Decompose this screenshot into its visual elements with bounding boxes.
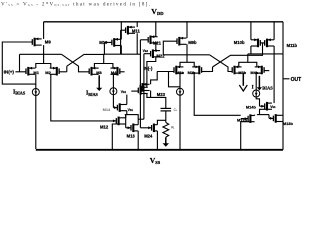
wire M4b drain lead — [256, 72, 262, 74]
wire M11 gate lead — [121, 29, 126, 31]
M3 label — [96, 70, 102, 75]
wire Vb1 node to M15 gate — [131, 90, 138, 92]
transistor M2 — [50, 67, 59, 76]
OUT label — [291, 77, 302, 83]
current source I3 — [177, 88, 184, 95]
wire M12 source down — [112, 124, 118, 149]
M4 label — [111, 70, 117, 75]
wire M21 drain to M22 — [155, 43, 157, 51]
transistor M13b — [269, 114, 282, 123]
svg-text:M13b: M13b — [283, 121, 294, 126]
wire M12b source down — [241, 122, 251, 149]
transistor M3b — [232, 66, 241, 75]
wire M9b source to VDD — [186, 22, 188, 38]
wire M10 drain down — [120, 46, 122, 55]
wire node A horizontal — [20, 53, 62, 55]
wire M2 gate lead — [59, 71, 67, 73]
transistor M4b — [255, 66, 264, 75]
transistor M9b — [177, 37, 186, 46]
M1 label — [33, 70, 39, 75]
wire to OUT vertical — [274, 53, 283, 55]
wire M13b gate stub — [268, 115, 270, 119]
wire node A' horizontal — [163, 54, 209, 56]
M9b label — [188, 40, 197, 45]
Vb2 label — [143, 49, 149, 53]
transistor M10b — [251, 38, 260, 47]
transistor M3 — [89, 67, 98, 76]
VDD label — [151, 7, 164, 16]
ground arrow below M3b — [239, 73, 247, 91]
wire M12b drain up — [254, 114, 256, 117]
wire M1 drain — [35, 74, 37, 88]
wire I3 to VSS — [179, 95, 181, 149]
M10 label — [99, 40, 108, 45]
svg-text:BIAS: BIAS — [262, 86, 273, 91]
svg-text:I: I — [252, 85, 254, 91]
I_BIAS label 2 — [86, 91, 99, 97]
Vb1 label 2 — [128, 108, 134, 112]
diff pair bar 3 — [180, 62, 194, 67]
svg-text:IN(-): IN(-) — [143, 66, 153, 71]
center vertical v1 — [139, 40, 141, 128]
CL label — [174, 108, 178, 112]
transistor M23 — [140, 83, 149, 92]
wire pair4 tap — [247, 54, 249, 62]
VDD rail — [44, 21, 283, 23]
wire M10drain to pair2 and M21 — [104, 53, 141, 55]
I_BIAS label 4 BIAS — [262, 86, 273, 91]
wire M11b source to VDD — [273, 22, 275, 40]
svg-text:IBIAS: IBIAS — [13, 89, 26, 95]
svg-text:IN(+): IN(+) — [4, 70, 15, 75]
M2b label — [188, 70, 196, 75]
drain bus right — [257, 114, 269, 116]
svg-text:M13: M13 — [127, 133, 136, 138]
wire M13 source down — [137, 131, 139, 149]
svg-text:M1: M1 — [33, 70, 39, 75]
wire M4b gate stub — [264, 70, 269, 72]
IN(-) label — [143, 66, 153, 71]
figure caption text fragment — [1, 1, 151, 7]
wire M12b gate vertical — [240, 115, 242, 118]
wire M13 gate from M12 drain — [125, 115, 127, 128]
wire M14 drain up to Vb1 node — [126, 95, 128, 105]
wire M11 source to VDD — [136, 22, 138, 27]
svg-text:M4b: M4b — [250, 70, 258, 75]
transistor M13 — [126, 124, 139, 133]
wire M9 drain to pair1 tap — [43, 45, 45, 63]
svg-text:M14: M14 — [103, 107, 111, 112]
wire M14 source down — [126, 111, 128, 115]
M9 label — [45, 40, 52, 45]
wire diagonal B drop to M2 gate — [66, 66, 68, 72]
Vb1 label 3 — [270, 105, 276, 109]
wire I1 to VSS — [35, 95, 37, 149]
wire IN- branch to c3 — [169, 72, 181, 87]
current source I2 — [110, 88, 117, 95]
M3b label — [238, 70, 246, 75]
M13 label — [127, 133, 136, 138]
svg-text:M9: M9 — [45, 40, 52, 45]
diff pair bar 1 — [36, 64, 51, 69]
transistor M10 — [112, 38, 121, 47]
transistor M4 — [110, 67, 119, 76]
arrow to VSS — [163, 137, 169, 147]
wire M11b drain down — [273, 46, 275, 103]
svg-text:M10b: M10b — [234, 40, 245, 45]
I_BIAS label 1 — [13, 89, 26, 95]
M21 label — [153, 41, 162, 46]
wire M12 drain up — [125, 115, 127, 118]
current source I1 — [32, 89, 39, 96]
M2 label — [45, 70, 51, 75]
wire M9b gate lead — [163, 41, 177, 55]
M4b label — [250, 70, 258, 75]
wire M1b drain — [179, 73, 181, 88]
OUT vertical — [282, 22, 284, 150]
wire cross-couple diagonal C — [210, 55, 233, 72]
transistor M11 — [126, 26, 135, 35]
svg-text:M11: M11 — [132, 29, 141, 34]
wire M11 drain down — [136, 33, 138, 54]
wire I4 to M14b gate — [256, 97, 259, 106]
wire M9 gate feedback — [2, 42, 36, 84]
svg-text:OUT: OUT — [291, 77, 302, 83]
wire M23 gate stub — [139, 86, 141, 88]
wire M23 drain staircase — [151, 91, 166, 109]
svg-text:M3: M3 — [96, 70, 102, 75]
I_BIAS arrow 2 — [96, 75, 102, 91]
transistor M9 — [32, 38, 41, 47]
wire M10b drain down — [250, 46, 252, 54]
wire M2b drain long — [194, 73, 241, 115]
M10b label — [234, 40, 245, 45]
svg-text:M9b: M9b — [188, 40, 197, 45]
M11b label — [287, 43, 298, 48]
wire I2 to M14 gate — [112, 95, 114, 108]
wire M2b gate lead — [202, 71, 211, 73]
wire M11 gate vertical — [120, 30, 122, 54]
transistor M22 — [151, 49, 160, 58]
IN(+) label — [4, 70, 15, 75]
wire M10b-M11b gate bridge — [260, 42, 264, 44]
diff pair bar 2 — [94, 64, 113, 69]
wire v2 to M13 drain — [138, 118, 144, 120]
wire diagonal D drop to M2b gate — [210, 67, 212, 72]
I_BIAS label 4 I — [252, 85, 254, 91]
wire M24 source down — [156, 131, 158, 149]
wire M10 source to VDD — [120, 22, 122, 40]
svg-text:Vb1: Vb1 — [270, 105, 276, 109]
svg-text:M21: M21 — [153, 41, 162, 46]
svg-text:M12: M12 — [100, 125, 109, 130]
wire pair2 tap — [103, 54, 105, 63]
transistor M2b — [192, 66, 201, 75]
wire M21 gate to v1 — [140, 39, 148, 41]
svg-text:Vb2: Vb2 — [143, 49, 149, 53]
svg-text:Vb1: Vb1 — [128, 108, 134, 112]
wire M10 gate lead — [104, 41, 112, 43]
VSS label — [150, 156, 161, 165]
wire node A drop to IN+ — [19, 54, 21, 72]
wire M24 gate lead — [140, 127, 148, 129]
svg-text:M11b: M11b — [287, 43, 298, 48]
wire cross-couple diagonal B — [67, 54, 105, 66]
wire cap to resistor — [165, 111, 167, 123]
M14b label — [246, 104, 257, 109]
wire M4 drain lead — [113, 73, 117, 75]
center vertical v2 — [143, 54, 145, 120]
svg-text:M23: M23 — [157, 92, 166, 97]
wire M13b drain to OUT — [282, 114, 283, 116]
M14 label — [103, 107, 111, 112]
wire IN(+) to M1 gate — [15, 71, 26, 73]
wire M13 drain up — [137, 115, 139, 125]
I_BIAS arrow 4 — [257, 76, 262, 91]
wire IN(-) to M1b gate — [157, 71, 174, 73]
wire M24 drain up — [157, 120, 165, 124]
wire M4 drain — [112, 74, 114, 88]
wire M22 gate to v2 — [144, 53, 151, 55]
wire M4b drain — [255, 73, 257, 90]
RL label — [171, 125, 175, 129]
transistor M12 — [113, 117, 126, 126]
M12b label — [237, 118, 248, 123]
transistor M14 — [113, 103, 126, 112]
svg-text:Vb1: Vb1 — [121, 90, 127, 94]
M23 label — [157, 92, 166, 97]
transistor M15 — [138, 86, 147, 95]
diff pair bar 4 — [239, 62, 257, 67]
wire M21 source to VDD — [155, 22, 157, 37]
wire M2gate-M10gate vertical — [103, 42, 105, 54]
wire cross-couple diagonal A — [62, 54, 90, 72]
transistor M14b — [260, 102, 272, 111]
wire gate bridge drop — [262, 43, 264, 46]
wire cross-couple diagonal D — [213, 46, 263, 67]
M24 label — [144, 133, 153, 138]
wire M2 drain to M12 gate — [51, 74, 113, 121]
transistor M1 — [26, 67, 35, 76]
wire M10b source to VDD — [250, 22, 252, 40]
svg-text:IBIAS: IBIAS — [86, 91, 99, 97]
M13b label — [283, 121, 294, 126]
wire M14b source down — [260, 109, 268, 114]
resistor RL — [163, 123, 169, 138]
transistor M24 — [148, 124, 157, 133]
wire M9b drain to pair3 tap — [186, 44, 188, 62]
wire M23 source staircase — [151, 72, 158, 85]
Vb1 label 1 — [121, 90, 127, 94]
transistor M1b — [174, 66, 183, 75]
OUT tick — [283, 78, 290, 80]
svg-text:V′SS = VGS - 2*VDS,SAT that wa: V′SS = VGS - 2*VDS,SAT that was derived … — [1, 1, 151, 7]
svg-text:M14b: M14b — [246, 104, 257, 109]
M1b label — [176, 70, 184, 75]
wire drains horizontal — [248, 53, 274, 55]
wire M9 source to VDD — [43, 22, 45, 39]
svg-text:M24: M24 — [144, 133, 153, 138]
wire M15 source down — [147, 94, 151, 98]
M12 label — [100, 125, 109, 130]
wire M4 gate stub — [120, 71, 125, 73]
transistor M21 — [148, 35, 157, 44]
VSS rail — [36, 149, 283, 151]
drain bus left — [125, 114, 139, 116]
M11 label — [132, 29, 141, 34]
transistor M12b — [241, 114, 255, 123]
current source I4 — [253, 90, 260, 97]
M22 label — [156, 54, 165, 59]
wire M13b source to OUT — [282, 121, 283, 123]
wire M22 drain to M15 — [147, 57, 156, 88]
capacitor CL — [161, 108, 172, 111]
transistor M11b — [265, 38, 274, 47]
